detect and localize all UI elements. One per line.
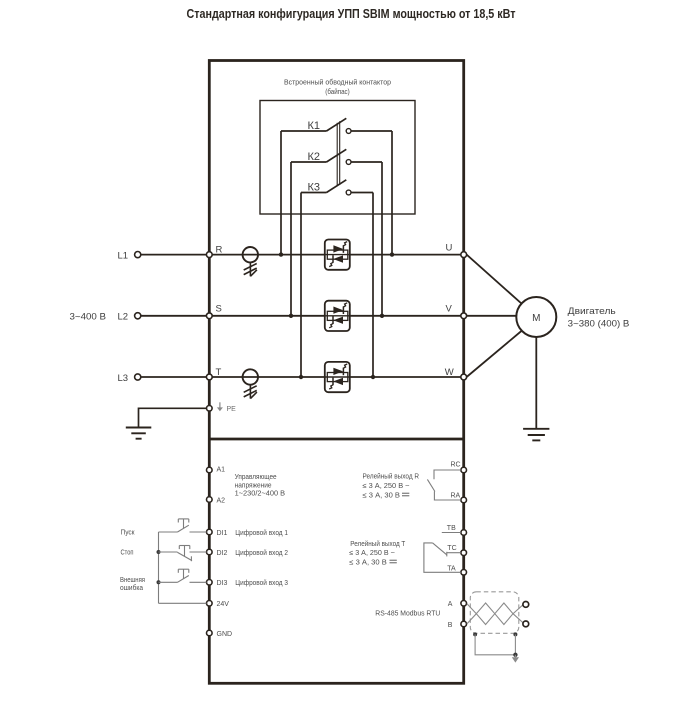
svg-text:B: B [448, 622, 453, 629]
svg-text:RC: RC [451, 462, 461, 469]
terminal RC [461, 467, 467, 473]
terminal TB [461, 530, 467, 536]
wire phase R line [141, 254, 464, 256]
terminal 24V [207, 601, 213, 607]
twisted pair wire A [467, 603, 523, 625]
svg-text:3~400 В: 3~400 В [70, 312, 107, 323]
svg-text:DI2: DI2 [217, 550, 228, 557]
svg-text:Релейный выход Т: Релейный выход Т [350, 540, 406, 548]
wire K1 right drop [391, 131, 393, 255]
motor M [516, 297, 556, 337]
PE arrow label [217, 402, 236, 413]
terminal B' [523, 621, 529, 627]
svg-text:Управляющее: Управляющее [235, 474, 277, 481]
label control voltage [235, 474, 286, 498]
mechanical linkage [337, 121, 340, 186]
node K1-R junction [279, 252, 283, 256]
current transformer CT1 on R [243, 247, 258, 276]
svg-text:≤ 3 А, 250 В ~: ≤ 3 А, 250 В ~ [349, 550, 395, 557]
svg-text:A2: A2 [217, 497, 226, 504]
thyristor module VS3 (phase T) [325, 362, 350, 392]
svg-text:RS-485 Modbus RTU: RS-485 Modbus RTU [375, 610, 440, 617]
node K2-S junction [289, 314, 293, 318]
svg-text:TA: TA [447, 566, 456, 573]
svg-text:ошибка: ошибка [120, 584, 143, 592]
svg-text:U: U [446, 243, 453, 254]
svg-text:К3: К3 [308, 182, 321, 194]
DC symbol relay T [390, 560, 397, 563]
terminal TC [461, 550, 467, 556]
wire K3 right drop [372, 193, 374, 378]
svg-text:1~230/2~400 В: 1~230/2~400 В [235, 491, 286, 498]
terminal L3 [135, 374, 141, 380]
svg-text:≤ 3 А, 30 В: ≤ 3 А, 30 В [349, 559, 387, 566]
wire 24V [159, 602, 207, 604]
contactor K3 [301, 180, 373, 195]
terminal T [206, 374, 212, 380]
wire K3 left drop [300, 193, 302, 378]
node K3-W junction [371, 375, 375, 379]
svg-text:≤ 3 А, 250 В ~: ≤ 3 А, 250 В ~ [363, 483, 410, 490]
svg-text:М: М [532, 313, 540, 324]
svg-text:TC: TC [447, 545, 456, 552]
node K2-V junction [380, 314, 384, 318]
terminal PE [207, 406, 213, 412]
wire K2 left drop [290, 162, 292, 316]
svg-text:DI1: DI1 [217, 530, 228, 537]
wire V to motor [467, 315, 517, 317]
svg-text:PE: PE [227, 406, 237, 413]
svg-text:S: S [216, 303, 222, 314]
node rail-DI2 [157, 550, 161, 554]
pushbutton SB3 (error, NO) [159, 569, 207, 582]
svg-text:TB: TB [447, 525, 456, 532]
svg-text:L1: L1 [118, 251, 129, 262]
ground arrow (shield earth) [514, 655, 516, 658]
svg-text:≤ 3 А, 30 В: ≤ 3 А, 30 В [363, 492, 401, 499]
terminal L1 [135, 252, 141, 258]
node shield left [473, 632, 477, 636]
terminal A2 [207, 497, 213, 503]
label relay R [363, 473, 420, 500]
svg-text:R: R [216, 245, 223, 256]
terminal U [461, 252, 467, 258]
terminal R [206, 252, 212, 258]
node shield right [513, 632, 517, 636]
terminal W [461, 374, 467, 380]
wire phase S line [141, 315, 464, 317]
svg-text:W: W [445, 367, 454, 378]
terminal S [206, 313, 212, 319]
terminal DI3 [207, 580, 213, 586]
wire K1 left drop [280, 131, 282, 255]
svg-text:24V: 24V [217, 601, 230, 608]
terminal RA [461, 497, 467, 503]
RS-485 termination dashed box [470, 592, 519, 634]
thyristor module VS2 (phase S) [325, 301, 350, 331]
ground (motor earth) [523, 429, 549, 441]
svg-text:V: V [446, 304, 453, 315]
bypass contactor box [260, 101, 415, 215]
svg-text:GND: GND [217, 631, 233, 638]
svg-text:A1: A1 [217, 466, 226, 473]
svg-text:Цифровой вход 3: Цифровой вход 3 [235, 579, 288, 587]
svg-text:(байпас): (байпас) [325, 87, 350, 96]
wire U to motor [467, 255, 522, 304]
device outer box [209, 61, 463, 684]
wire common rail [158, 532, 160, 603]
svg-text:К2: К2 [308, 151, 321, 163]
svg-text:Релейный выход R: Релейный выход R [363, 473, 420, 481]
svg-text:DI3: DI3 [217, 580, 228, 587]
terminal L2 [135, 313, 141, 319]
wire motor ground [535, 337, 537, 429]
relay contact T [424, 533, 461, 573]
terminal DI2 [207, 549, 213, 555]
svg-text:напряжение: напряжение [235, 482, 272, 489]
terminal GND [207, 630, 213, 636]
terminal A [461, 601, 467, 607]
DC symbol relay R [402, 493, 409, 496]
svg-text:Цифровой вход 1: Цифровой вход 1 [235, 529, 288, 537]
svg-text:Внешняя: Внешняя [120, 577, 145, 584]
terminal B [461, 621, 467, 627]
svg-text:Стандартная конфигурация УПП S: Стандартная конфигурация УПП SBIM мощнос… [187, 7, 516, 21]
node shield junction [513, 653, 517, 657]
wire PE [139, 408, 207, 427]
contactor K1 [281, 118, 392, 133]
twisted pair wire B [467, 603, 523, 625]
svg-text:A: A [448, 601, 453, 608]
thyristor module VS1 (phase R) [325, 240, 350, 270]
pushbutton SB2 (Stop, NC) [159, 546, 207, 562]
current transformer CT2 on T [243, 369, 258, 398]
relay contact R [427, 470, 460, 500]
svg-text:Стоп: Стоп [121, 550, 134, 557]
terminal DI1 [207, 529, 213, 535]
node rail-DI3 [157, 580, 161, 584]
wire shield [475, 634, 515, 654]
svg-text:Пуск: Пуск [121, 530, 136, 537]
node K1-U junction [390, 252, 394, 256]
wire W to motor [467, 331, 522, 378]
terminal A1 [207, 467, 213, 473]
label relay T [349, 540, 406, 566]
terminal V [461, 313, 467, 319]
svg-text:T: T [216, 367, 222, 378]
svg-text:L2: L2 [118, 312, 129, 323]
wire K2 right drop [381, 162, 383, 316]
svg-text:3~380 (400) В: 3~380 (400) В [568, 319, 630, 330]
terminal A' [523, 602, 529, 608]
svg-text:Двигатель: Двигатель [568, 306, 616, 317]
contactor K2 [291, 149, 382, 164]
svg-text:Цифровой вход 2: Цифровой вход 2 [235, 549, 288, 557]
ground (PE earth) [126, 428, 152, 439]
terminal TA [461, 570, 467, 576]
pushbutton SB1 (Pusk, NO) [159, 519, 207, 532]
wire phase T line [141, 376, 464, 378]
node K3-T junction [299, 375, 303, 379]
bypass label [284, 78, 391, 97]
svg-text:Встроенный обводный контактор: Встроенный обводный контактор [284, 78, 391, 87]
svg-text:L3: L3 [118, 373, 129, 384]
svg-text:К1: К1 [308, 120, 321, 132]
svg-text:RA: RA [451, 493, 461, 500]
section divider [209, 438, 463, 441]
